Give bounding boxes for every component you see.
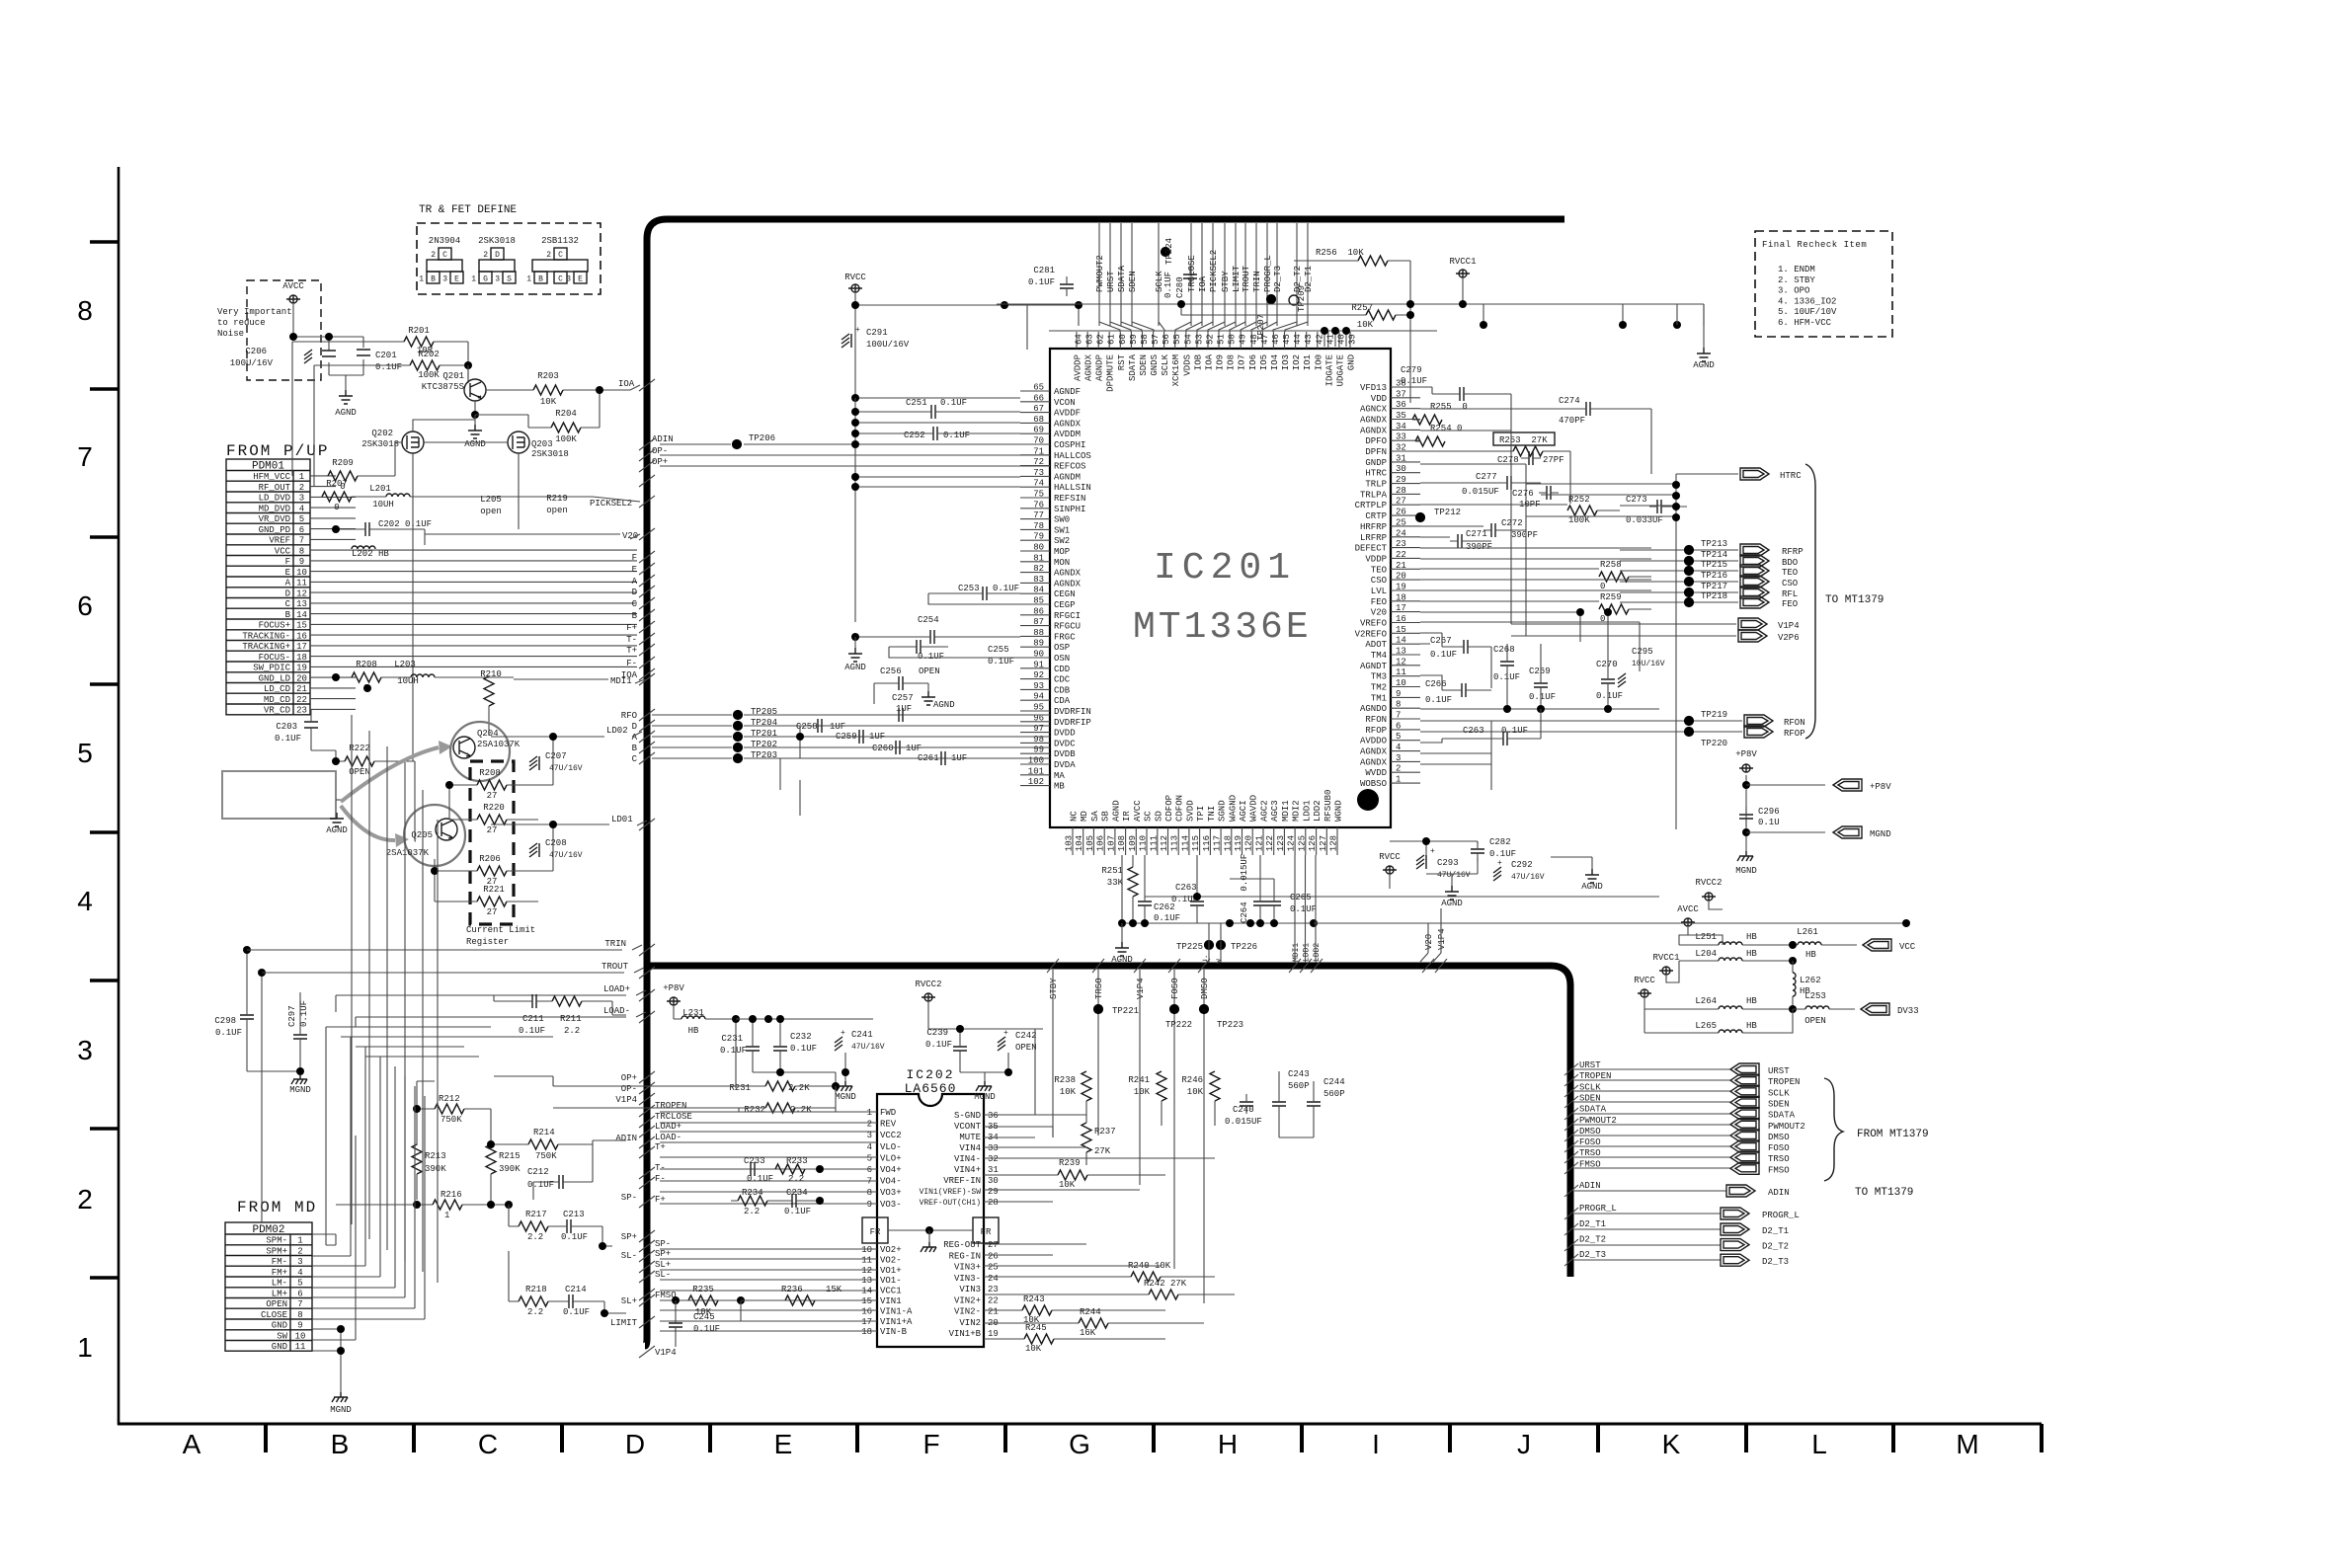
svg-text:32: 32	[988, 1154, 999, 1164]
svg-text:MB: MB	[1054, 782, 1065, 792]
svg-text:HTRC: HTRC	[1365, 469, 1387, 479]
svg-text:7: 7	[867, 1177, 872, 1187]
svg-text:C281: C281	[1033, 266, 1055, 275]
svg-text:RFGCI: RFGCI	[1054, 611, 1081, 621]
svg-text:D2_T1: D2_T1	[1762, 1226, 1789, 1236]
svg-text:TP224: TP224	[1164, 238, 1174, 265]
svg-text:FOSO: FOSO	[1170, 978, 1180, 999]
ground MGND c297	[291, 1074, 307, 1084]
svg-text:12: 12	[861, 1266, 872, 1276]
svg-text:TRIN: TRIN	[1252, 271, 1262, 292]
node FMSO terminal fr	[1574, 1167, 1730, 1169]
svg-text:10K: 10K	[1357, 320, 1374, 330]
svg-text:IO5: IO5	[1259, 354, 1269, 370]
svg-text:SPM-: SPM-	[266, 1236, 287, 1246]
svg-text:C203: C203	[276, 722, 297, 732]
svg-text:DVDB: DVDB	[1054, 749, 1076, 759]
svg-text:10: 10	[861, 1245, 872, 1255]
svg-text:F-: F-	[655, 1174, 666, 1184]
power RVCC2 br	[1702, 893, 1716, 901]
svg-text:RFRP: RFRP	[1782, 547, 1804, 557]
ground AGND c282	[1445, 886, 1459, 900]
svg-text:AGND: AGND	[335, 408, 357, 418]
svg-text:TRSO: TRSO	[1768, 1154, 1790, 1164]
svg-text:30: 30	[1396, 464, 1406, 474]
svg-text:D2_T1: D2_T1	[1579, 1219, 1606, 1229]
node D2_T2 terminal	[1574, 1244, 1721, 1246]
svg-text:FOCUS+: FOCUS+	[259, 621, 290, 631]
svg-text:AGNDF: AGNDF	[1054, 387, 1081, 397]
wire PDM01 rows	[310, 475, 336, 477]
svg-text:to reduce: to reduce	[217, 318, 266, 328]
svg-text:SW_PDIC: SW_PDIC	[253, 664, 290, 673]
svg-text:VIN4: VIN4	[959, 1143, 981, 1153]
svg-text:VREF-OUT(CH1): VREF-OUT(CH1)	[920, 1199, 981, 1208]
svg-text:HTRC: HTRC	[1780, 471, 1802, 481]
svg-text:RFOP: RFOP	[1365, 726, 1387, 736]
resistor R237	[1082, 1123, 1091, 1152]
svg-text:8: 8	[77, 295, 93, 326]
svg-text:10K: 10K	[1025, 1344, 1042, 1354]
power RVCC top	[848, 284, 862, 292]
svg-text:82: 82	[1033, 564, 1044, 574]
svg-text:DVDC: DVDC	[1054, 739, 1076, 748]
svg-text:OPEN: OPEN	[1015, 1043, 1037, 1053]
svg-text:0.1UF: 0.1UF	[940, 398, 967, 408]
svg-text:IOB: IOB	[1193, 353, 1203, 370]
svg-text:C252: C252	[904, 431, 925, 440]
svg-text:19: 19	[296, 664, 307, 673]
svg-text:1: 1	[297, 1236, 302, 1246]
svg-text:AGNDO: AGNDO	[1360, 704, 1387, 714]
svg-text:44: 44	[1293, 334, 1303, 345]
wire right extra rows	[1420, 474, 1676, 829]
svg-text:2: 2	[483, 251, 488, 260]
svg-text:MUTE: MUTE	[959, 1133, 981, 1142]
svg-text:47U/16V: 47U/16V	[1511, 873, 1545, 882]
node URST terminal fr	[1574, 1068, 1730, 1070]
svg-text:10UH: 10UH	[372, 500, 394, 510]
svg-text:AGND: AGND	[1111, 955, 1133, 965]
transistor Q201	[464, 379, 486, 401]
svg-text:14: 14	[1396, 636, 1406, 646]
svg-text:C273: C273	[1626, 495, 1647, 505]
IC201 right pins 1-38	[1391, 386, 1420, 388]
svg-text:DPDMUTE: DPDMUTE	[1106, 354, 1116, 392]
node SDEN terminal fr	[1574, 1101, 1730, 1103]
svg-text:SPM+: SPM+	[266, 1246, 287, 1256]
node RFL terminal	[1620, 591, 1738, 593]
svg-text:CDD: CDD	[1054, 665, 1070, 674]
svg-text:127: 127	[1319, 835, 1328, 851]
svg-text:LRFRP: LRFRP	[1360, 533, 1387, 543]
svg-text:2N3904: 2N3904	[429, 236, 460, 246]
ground AGND bottom	[1121, 923, 1123, 942]
svg-text:K: K	[1662, 1429, 1681, 1459]
svg-text:OPEN: OPEN	[1804, 1016, 1826, 1026]
svg-text:R220: R220	[483, 803, 505, 813]
svg-text:C267: C267	[1430, 636, 1452, 646]
svg-text:560P: 560P	[1288, 1081, 1310, 1091]
svg-text:HFM_VCC: HFM_VCC	[253, 472, 290, 482]
svg-text:PROGR_L: PROGR_L	[1579, 1204, 1617, 1214]
svg-text:C243: C243	[1288, 1069, 1310, 1079]
power RVCC1 br	[1659, 967, 1673, 975]
test point TP222	[1169, 1004, 1178, 1013]
svg-text:116: 116	[1202, 835, 1212, 851]
svg-text:+: +	[1003, 1029, 1008, 1038]
svg-text:37: 37	[1396, 389, 1406, 399]
svg-text:23: 23	[296, 706, 307, 716]
svg-text:LA6560: LA6560	[905, 1081, 957, 1096]
svg-text:REG-OUT: REG-OUT	[943, 1240, 981, 1250]
svg-text:76: 76	[1033, 500, 1044, 510]
svg-text:14: 14	[296, 610, 307, 620]
svg-text:R219: R219	[546, 494, 568, 504]
svg-text:SVDD: SVDD	[1185, 800, 1195, 822]
ground AGND q201	[474, 415, 476, 425]
svg-text:122: 122	[1265, 835, 1275, 851]
svg-text:50: 50	[1228, 334, 1238, 345]
svg-text:V1P4: V1P4	[615, 1095, 637, 1105]
svg-text:V2P6: V2P6	[1778, 633, 1800, 643]
svg-text:AGND: AGND	[326, 825, 348, 835]
svg-text:750K: 750K	[441, 1115, 462, 1125]
svg-text:GNDS: GNDS	[1150, 354, 1160, 376]
svg-text:RVCC2: RVCC2	[915, 980, 941, 989]
svg-text:57: 57	[1151, 334, 1161, 345]
svg-text:1: 1	[471, 275, 476, 284]
inductor L204	[1679, 960, 1793, 962]
svg-text:MOP: MOP	[1054, 547, 1070, 557]
svg-text:13: 13	[296, 599, 307, 609]
svg-text:+: +	[841, 1029, 845, 1038]
svg-text:R252: R252	[1568, 495, 1590, 505]
FR damper boxes	[862, 1217, 888, 1243]
svg-text:CDA: CDA	[1054, 696, 1071, 706]
IC201 bottom pins 103-128	[1072, 827, 1074, 855]
svg-text:FEO: FEO	[1782, 599, 1798, 609]
svg-text:29: 29	[988, 1187, 999, 1197]
svg-text:124: 124	[1287, 835, 1297, 851]
svg-text:REG-IN: REG-IN	[949, 1251, 981, 1261]
svg-text:CEGP: CEGP	[1054, 600, 1076, 610]
svg-text:126: 126	[1308, 835, 1318, 851]
svg-text:R208: R208	[479, 768, 501, 778]
svg-text:51: 51	[1217, 334, 1227, 345]
svg-text:0.1UF: 0.1UF	[1596, 691, 1623, 701]
brace TO MT1379 right	[1805, 464, 1815, 739]
svg-text:TP220: TP220	[1701, 739, 1727, 748]
svg-text:VIN1: VIN1	[880, 1296, 902, 1306]
test point TP209	[1289, 295, 1299, 305]
svg-text:3: 3	[566, 275, 571, 284]
svg-text:Very Important: Very Important	[217, 307, 292, 317]
svg-text:C232: C232	[790, 1032, 812, 1042]
svg-text:VO2-: VO2-	[880, 1255, 902, 1265]
svg-text:SP+: SP+	[621, 1232, 637, 1242]
svg-text:9: 9	[867, 1200, 872, 1210]
svg-text:LIMIT: LIMIT	[1232, 265, 1242, 292]
svg-text:C264 0.015UF: C264 0.015UF	[1240, 854, 1249, 923]
svg-text:R217: R217	[525, 1210, 547, 1219]
svg-text:C293: C293	[1437, 858, 1459, 868]
svg-text:30: 30	[988, 1176, 999, 1186]
svg-text:0.1UF: 0.1UF	[561, 1232, 588, 1242]
svg-text:DVDA: DVDA	[1054, 760, 1076, 770]
svg-text:74: 74	[1033, 479, 1044, 489]
svg-text:2.2K: 2.2K	[788, 1083, 810, 1093]
svg-text:27: 27	[487, 825, 498, 835]
svg-text:2SK3018: 2SK3018	[361, 439, 399, 449]
svg-text:HB: HB	[1746, 932, 1757, 942]
svg-text:AGND: AGND	[1441, 899, 1463, 908]
svg-text:Q201: Q201	[442, 371, 464, 381]
svg-text:10: 10	[295, 1331, 306, 1341]
svg-text:C256: C256	[880, 666, 902, 676]
svg-text:10K: 10K	[1059, 1180, 1076, 1190]
power P8V ic202	[667, 997, 681, 1005]
wire jogs crossing left bus	[639, 379, 655, 1358]
svg-text:VO2+: VO2+	[880, 1245, 902, 1255]
svg-text:UDGATE: UDGATE	[1335, 354, 1345, 386]
node V2P6 terminal	[1511, 635, 1736, 637]
svg-text:C208: C208	[545, 838, 567, 848]
svg-text:41: 41	[1325, 334, 1335, 345]
svg-text:0.1UF: 0.1UF	[215, 1028, 242, 1038]
svg-text:R243: R243	[1023, 1294, 1045, 1304]
svg-text:27PF: 27PF	[1543, 455, 1564, 465]
node FOSO terminal fr	[1574, 1145, 1730, 1147]
svg-text:10: 10	[1396, 678, 1406, 688]
svg-text:2: 2	[297, 1246, 302, 1256]
svg-text:VIN3-: VIN3-	[954, 1274, 981, 1284]
svg-text:115: 115	[1191, 835, 1201, 851]
capacitor C296	[1739, 807, 1753, 826]
svg-text:+: +	[855, 326, 860, 335]
svg-text:560P: 560P	[1323, 1089, 1345, 1099]
svg-text:V20: V20	[1371, 608, 1387, 618]
svg-text:0.1UF: 0.1UF	[563, 1307, 590, 1317]
node RFRP terminal	[1620, 549, 1738, 551]
svg-text:49: 49	[1239, 334, 1248, 345]
svg-text:C292: C292	[1511, 860, 1533, 870]
svg-text:VIN4+: VIN4+	[954, 1165, 981, 1175]
svg-text:AGCI: AGCI	[1239, 800, 1248, 822]
svg-text:CRTPLP: CRTPLP	[1355, 501, 1387, 510]
note noise box	[247, 280, 321, 380]
ground AGND c254	[854, 637, 856, 648]
svg-text:SDATA: SDATA	[1117, 265, 1127, 292]
capacitor C202	[358, 522, 377, 536]
svg-text:C263: C263	[1463, 726, 1484, 736]
svg-text:ADOT: ADOT	[1365, 640, 1387, 650]
svg-text:2.2: 2.2	[527, 1307, 543, 1317]
power +P8V	[1739, 764, 1753, 772]
svg-text:CEGN: CEGN	[1054, 589, 1076, 599]
svg-text:ADIN: ADIN	[1579, 1181, 1601, 1191]
svg-text:CDFON: CDFON	[1175, 795, 1185, 822]
svg-text:VLO-: VLO-	[880, 1142, 902, 1152]
svg-text:C260: C260	[872, 744, 894, 753]
svg-text:2: 2	[431, 251, 436, 260]
svg-text:28: 28	[1396, 486, 1406, 496]
svg-text:VO1-: VO1-	[880, 1276, 902, 1286]
svg-text:16: 16	[296, 631, 307, 641]
svg-text:TP226: TP226	[1231, 942, 1257, 952]
svg-text:SL-: SL-	[655, 1270, 671, 1280]
svg-text:24: 24	[1396, 528, 1406, 538]
svg-text:1: 1	[1396, 775, 1401, 785]
svg-text:8: 8	[297, 1310, 302, 1320]
svg-text:TP222: TP222	[1165, 1020, 1192, 1030]
svg-text:121: 121	[1254, 835, 1264, 851]
svg-text:E: E	[632, 565, 637, 575]
svg-text:TRSO: TRSO	[1579, 1148, 1601, 1158]
svg-text:0.1UF: 0.1UF	[1425, 695, 1452, 705]
wire ic202 right misc	[984, 1127, 1215, 1266]
svg-text:L265: L265	[1695, 1021, 1717, 1031]
svg-text:V20: V20	[1424, 934, 1434, 950]
svg-text:3: 3	[867, 1131, 872, 1140]
svg-text:2: 2	[77, 1184, 93, 1215]
svg-text:C245: C245	[693, 1312, 715, 1322]
svg-text:2: 2	[299, 483, 304, 493]
svg-text:LD_CD: LD_CD	[264, 684, 290, 694]
svg-text:TP214: TP214	[1701, 550, 1727, 560]
power RVCC2 ic202	[922, 993, 935, 1001]
svg-text:AVDDP: AVDDP	[1074, 354, 1083, 381]
svg-text:DV33: DV33	[1897, 1006, 1919, 1016]
svg-text:RVCC1: RVCC1	[1449, 257, 1476, 267]
svg-text:AGNDX: AGNDX	[1360, 747, 1388, 757]
svg-text:TR & FET DEFINE: TR & FET DEFINE	[419, 204, 517, 216]
svg-text:0.1UF: 0.1UF	[918, 652, 944, 662]
svg-text:L201: L201	[369, 484, 391, 494]
test point TP224	[1161, 247, 1169, 256]
svg-text:10K: 10K	[540, 397, 557, 407]
svg-text:54: 54	[1183, 334, 1193, 345]
svg-text:R232: R232	[744, 1105, 765, 1115]
svg-text:390PF: 390PF	[1466, 542, 1492, 552]
svg-text:SL-: SL-	[621, 1251, 637, 1261]
svg-text:C206: C206	[245, 347, 267, 356]
ground AGND c292	[1585, 869, 1599, 883]
svg-text:C201: C201	[375, 351, 397, 360]
svg-text:2.2: 2.2	[564, 1026, 580, 1036]
svg-text:ADIN: ADIN	[1768, 1188, 1790, 1198]
svg-text:7: 7	[1396, 711, 1401, 721]
svg-text:REV: REV	[880, 1120, 897, 1130]
svg-text:1UF: 1UF	[830, 722, 845, 732]
svg-text:67: 67	[1033, 404, 1044, 414]
svg-text:LD_DVD: LD_DVD	[259, 494, 290, 504]
svg-text:V1P4: V1P4	[1136, 978, 1146, 999]
svg-text:VIN1(VREF)-SW: VIN1(VREF)-SW	[920, 1188, 982, 1197]
svg-text:VO4+: VO4+	[880, 1165, 902, 1175]
svg-text:DMSO: DMSO	[1579, 1127, 1601, 1137]
svg-text:IO9: IO9	[1216, 354, 1226, 370]
svg-text:FRGC: FRGC	[1054, 632, 1076, 642]
svg-text:TM2: TM2	[1371, 683, 1387, 693]
svg-text:Final Recheck Item: Final Recheck Item	[1762, 240, 1867, 250]
svg-text:28: 28	[988, 1198, 999, 1208]
svg-text:4. 1336_IO2: 4. 1336_IO2	[1778, 296, 1836, 306]
svg-text:17: 17	[1396, 603, 1406, 613]
svg-text:AGNDX: AGNDX	[1084, 353, 1094, 381]
svg-text:LM-: LM-	[272, 1279, 287, 1289]
svg-text:17: 17	[296, 642, 307, 652]
svg-text:MT1336E: MT1336E	[1133, 606, 1312, 649]
svg-text:R204: R204	[555, 409, 577, 419]
svg-text:C276: C276	[1512, 489, 1534, 499]
svg-text:PWMOUT2: PWMOUT2	[1579, 1116, 1617, 1126]
svg-text:RFON: RFON	[1784, 718, 1805, 728]
svg-text:C295: C295	[1632, 647, 1653, 657]
svg-text:WGND: WGND	[1334, 800, 1344, 822]
svg-text:4: 4	[1396, 743, 1401, 752]
svg-text:2SA1037K: 2SA1037K	[477, 740, 521, 749]
svg-text:18: 18	[861, 1327, 872, 1337]
svg-text:VO3-: VO3-	[880, 1200, 902, 1210]
svg-text:18: 18	[1396, 592, 1406, 602]
svg-text:IC201: IC201	[1154, 547, 1296, 589]
svg-text:VLO+: VLO+	[880, 1153, 902, 1163]
svg-text:47U/16V: 47U/16V	[549, 764, 583, 773]
svg-text:84: 84	[1033, 586, 1044, 595]
svg-text:10U/16V: 10U/16V	[1632, 660, 1665, 668]
svg-text:D: D	[632, 722, 637, 732]
svg-text:RFGCU: RFGCU	[1054, 622, 1081, 632]
svg-text:AGC3: AGC3	[1270, 800, 1280, 822]
svg-text:0.1UF: 0.1UF	[784, 1207, 811, 1216]
svg-text:79: 79	[1033, 532, 1044, 542]
svg-text:TO MT1379: TO MT1379	[1825, 594, 1884, 606]
svg-text:SC: SC	[1144, 811, 1154, 822]
svg-text:R253 27K: R253 27K	[1499, 435, 1548, 445]
svg-text:46: 46	[1271, 334, 1281, 345]
svg-text:R238: R238	[1054, 1075, 1076, 1085]
svg-text:L251: L251	[1695, 932, 1717, 942]
node TRSO terminal fr	[1574, 1156, 1730, 1158]
svg-text:108: 108	[1117, 835, 1127, 851]
svg-text:19: 19	[988, 1329, 999, 1339]
svg-text:M: M	[1956, 1429, 1978, 1459]
svg-text:17: 17	[861, 1317, 872, 1327]
svg-text:E: E	[774, 1429, 793, 1459]
test point TP207	[1266, 294, 1275, 303]
svg-text:78: 78	[1033, 521, 1044, 531]
svg-text:VIN1+B: VIN1+B	[949, 1329, 982, 1339]
block pickup box	[222, 771, 336, 819]
svg-text:REFSIN: REFSIN	[1054, 494, 1085, 504]
svg-text:18: 18	[296, 653, 307, 663]
svg-text:91: 91	[1033, 660, 1044, 669]
svg-text:TP223: TP223	[1217, 1020, 1243, 1030]
node V1P4 terminal	[1511, 623, 1736, 625]
svg-text:AGND: AGND	[1111, 800, 1121, 822]
svg-text:H: H	[1218, 1429, 1238, 1459]
svg-text:SDEN: SDEN	[1768, 1099, 1790, 1109]
svg-text:E: E	[578, 275, 583, 284]
svg-text:C257: C257	[892, 693, 914, 703]
power RVCC br2	[1638, 989, 1651, 997]
svg-text:119: 119	[1234, 835, 1243, 851]
svg-text:TP212: TP212	[1434, 508, 1461, 517]
svg-text:AGNDM: AGNDM	[1054, 472, 1081, 482]
svg-text:VIN2+: VIN2+	[954, 1295, 981, 1305]
node PWMOUT2 terminal fr	[1574, 1124, 1730, 1126]
